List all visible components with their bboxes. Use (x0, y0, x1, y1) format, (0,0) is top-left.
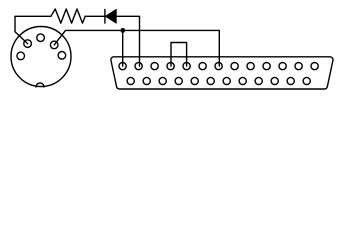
DB25 bottom row pins 14-25 (127, 77, 310, 84)
jumper staple DB25 pins 4-5 (171, 43, 187, 67)
wire from DIN top-right pin to mid rail (54, 30, 219, 66)
wire diode to DB25 pin 2 (116, 16, 139, 66)
junction dot (120, 28, 125, 33)
DB25 top row pins 1-13 (119, 63, 318, 70)
wire junction drop to DB25 pin 1 (122, 30, 124, 66)
wire from DIN top-left pin up to top rail (15, 16, 51, 43)
DIN pin top-middle (37, 34, 45, 42)
diode D1 cathode bar (104, 9, 106, 23)
resistor R1 (51, 9, 85, 23)
DIN key notch (36, 83, 44, 87)
DIN-5 connector J1 shell (11, 27, 71, 87)
DB25 connector J2 shell (111, 57, 333, 89)
DIN pin right (58, 52, 66, 60)
diode D1 triangle (106, 9, 117, 23)
DIN pin top-right (50, 41, 58, 49)
wire resistor to diode (85, 15, 105, 17)
DIN pin top-left (24, 40, 32, 48)
DIN pin left (17, 52, 25, 60)
